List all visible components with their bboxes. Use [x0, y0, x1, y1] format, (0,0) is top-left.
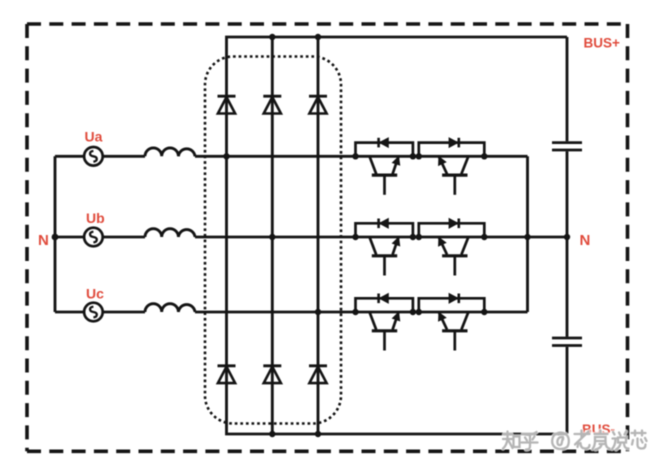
svg-text:N: N	[580, 232, 591, 249]
svg-text:Uc: Uc	[86, 286, 104, 302]
svg-text:N: N	[38, 232, 49, 249]
svg-text:Ub: Ub	[86, 210, 105, 226]
svg-text:BUS+: BUS+	[584, 36, 621, 51]
svg-text:Ua: Ua	[85, 129, 103, 145]
